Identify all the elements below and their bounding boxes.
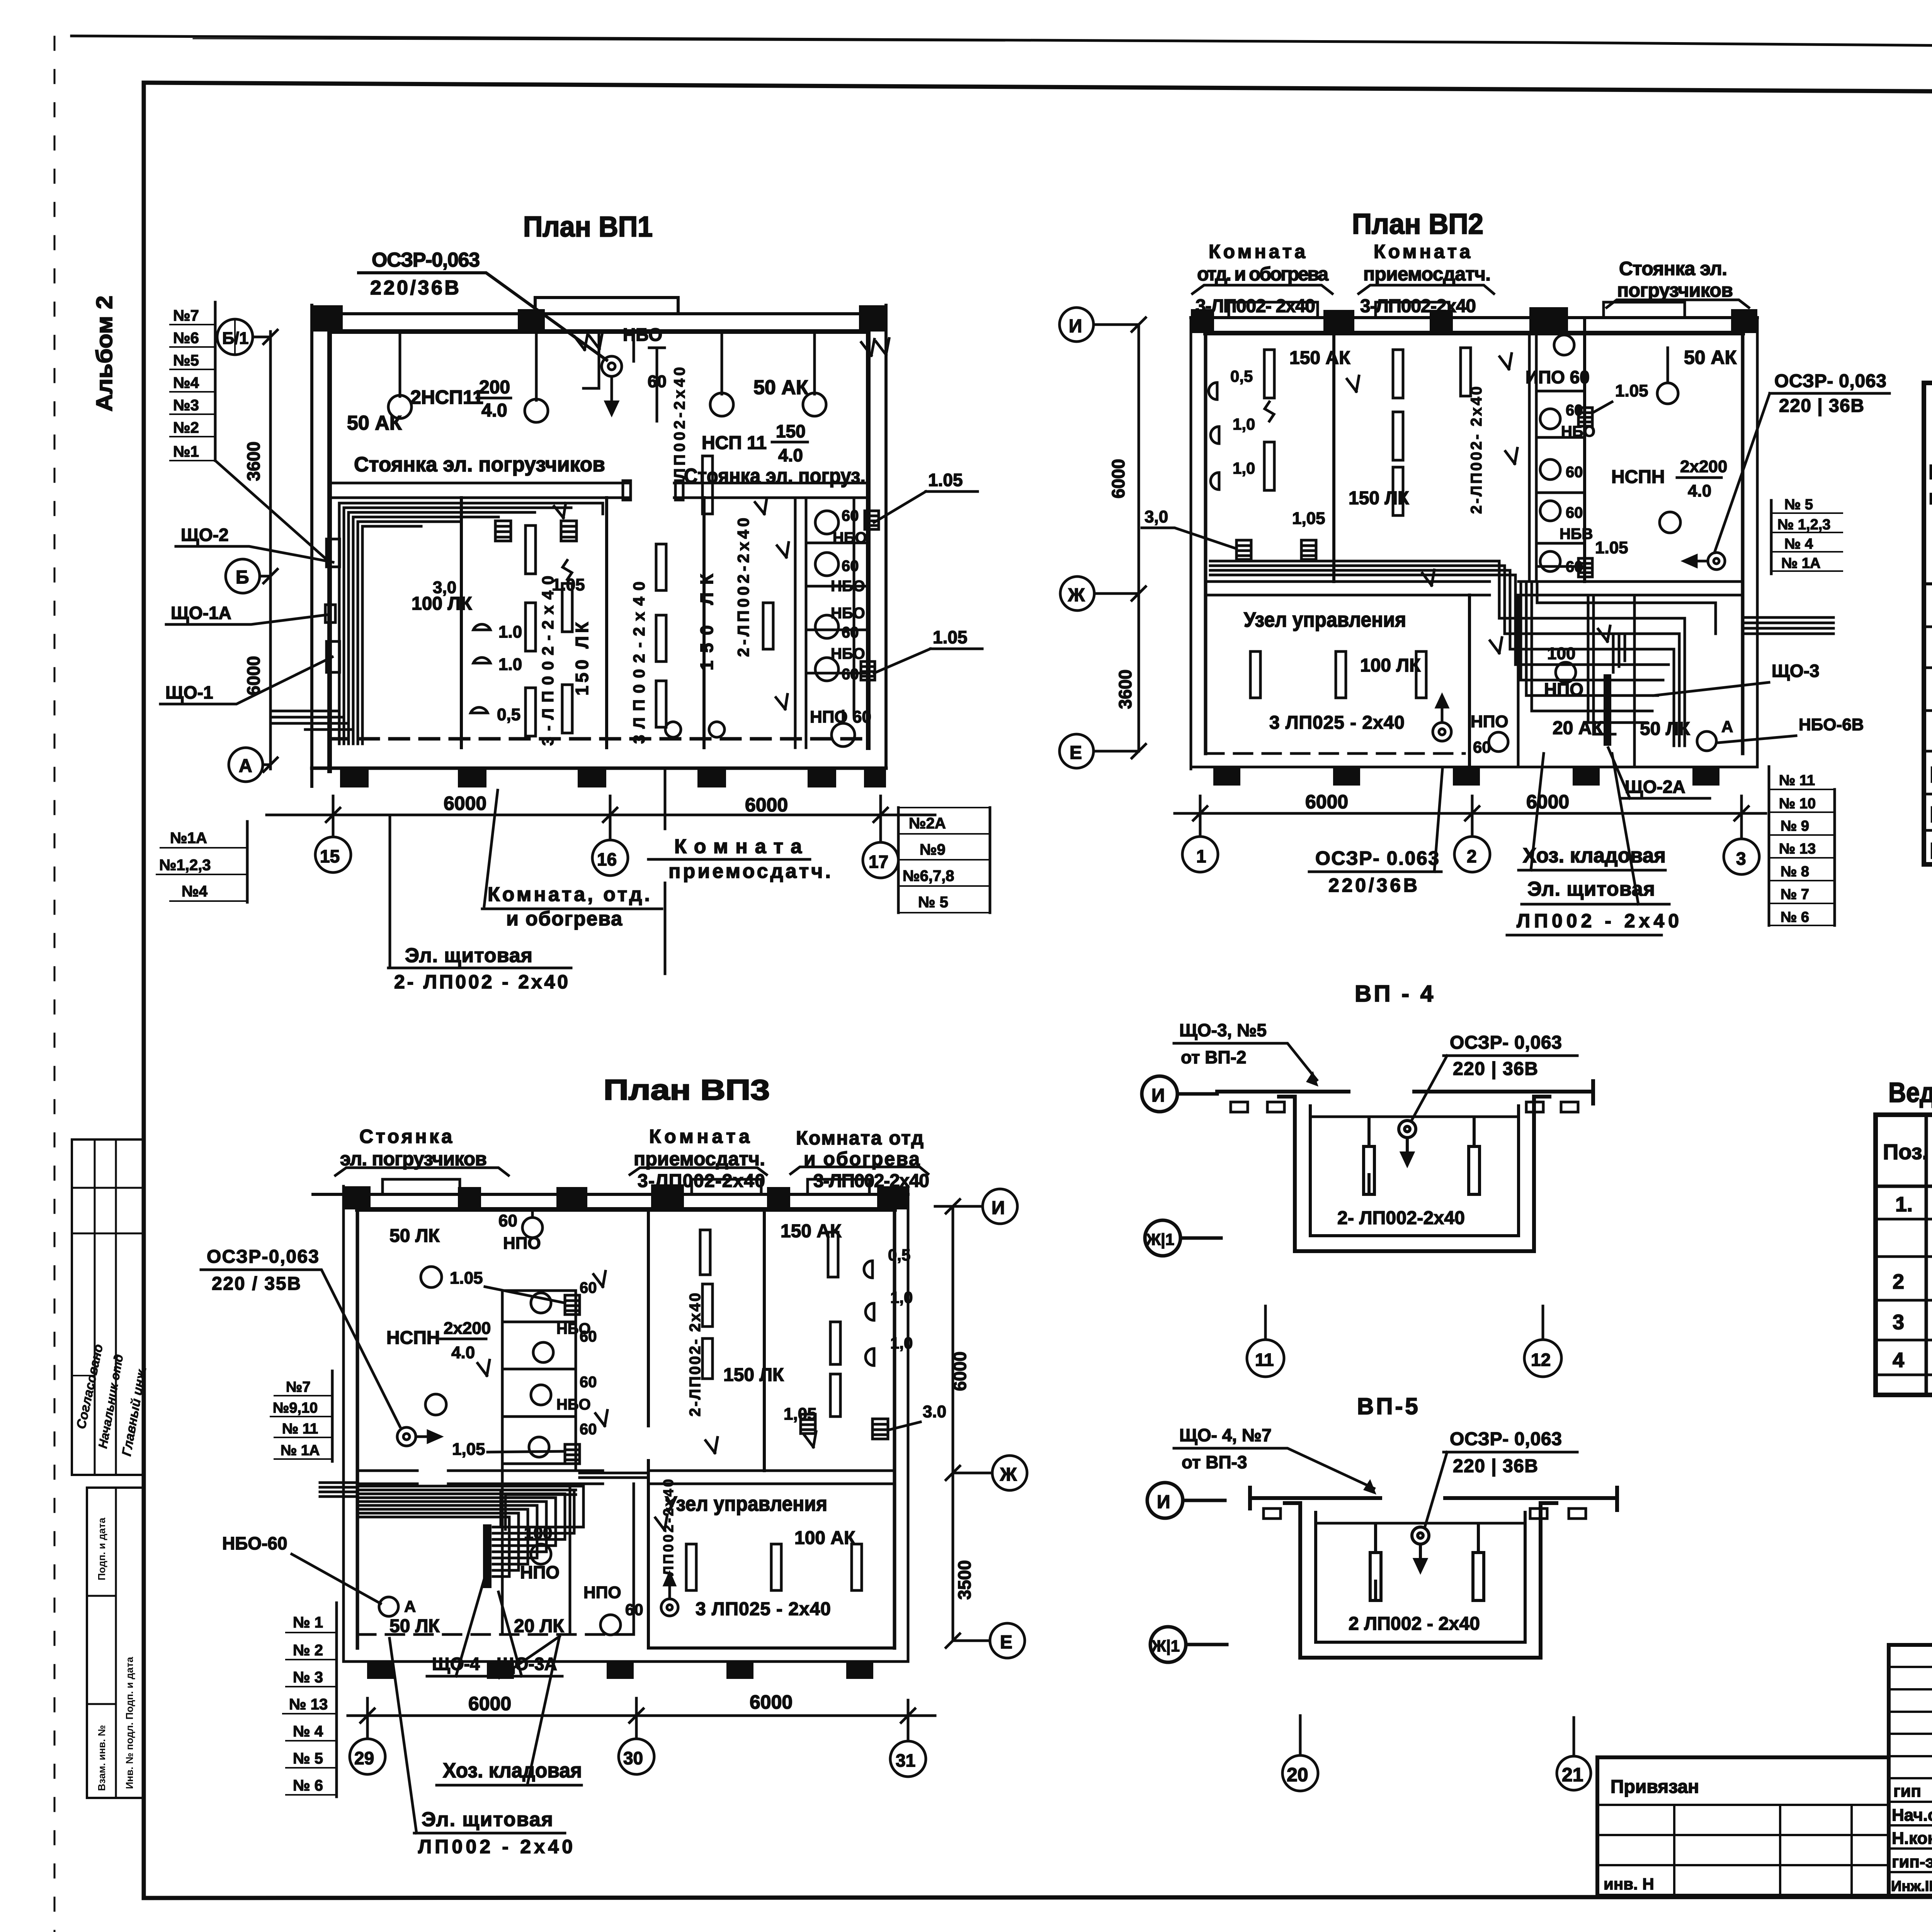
svg-text:№9: №9 [920,841,946,858]
uzel fixtures [1250,651,1426,698]
svg-text:Эл. щитовая: Эл. щитовая [422,1808,553,1831]
svg-text:НСП 11: НСП 11 [702,433,767,453]
svg-text:20: 20 [1287,1764,1308,1786]
vp2 mid wall [1206,582,1743,595]
svg-text:6000: 6000 [950,1352,970,1391]
fixture vp4 a [1364,1117,1374,1194]
svg-text:Инв. № подл. Подп. и дата: Инв. № подл. Подп. и дата [124,1656,135,1789]
svg-text:1.05: 1.05 [933,627,968,647]
svg-text:НПО: НПО [810,707,848,726]
fixture vp5 b [1473,1524,1484,1600]
bubble Zh1 vp4 [1145,1220,1221,1256]
svg-text:ЩО-2: ЩО-2 [181,525,229,545]
wall lamp b [473,658,490,663]
svg-text:1.05: 1.05 [450,1269,483,1287]
leader to transformer [359,273,607,360]
svg-text:1.0: 1.0 [498,622,522,641]
svg-text:4.0: 4.0 [778,445,803,465]
svg-text:ВП-5: ВП-5 [1357,1393,1420,1419]
stall lamp 4 [815,658,838,681]
door cluster wires [583,332,665,421]
bubble Zh1 vp5 [1150,1627,1227,1662]
svg-text:№ 1А: № 1А [281,1442,320,1459]
LEFT-MARGIN [72,296,150,1798]
leader from stack [215,461,328,561]
svg-text:НБО-6В: НБО-6В [1799,715,1864,734]
wall lamp a [473,624,490,630]
vp2 stoyanka wall [1583,318,1586,582]
fixture vp4 b [1469,1117,1480,1194]
svg-text:3600: 3600 [1115,670,1135,709]
svg-text:№ 1: № 1 [293,1614,323,1631]
svg-text:№ 13: № 13 [289,1696,328,1713]
signature grid [1889,1645,1932,1896]
svg-text:ЩО-4: ЩО-4 [432,1654,480,1674]
svg-text:№ 6: № 6 [293,1777,323,1794]
svg-text:3-ЛП002-2х40: 3-ЛП002-2х40 [1360,296,1476,316]
table1 outer border [1924,383,1932,864]
left dim line [269,332,272,769]
svg-text:11: 11 [1255,1350,1274,1370]
vp3 mid wall [357,1471,895,1484]
svg-text:1.0: 1.0 [498,655,522,674]
svg-text:50 АК: 50 АК [753,376,808,399]
svg-text:и обогрева: и обогрева [506,908,622,930]
transformer vp4 [1399,1121,1416,1165]
svg-text:16: 16 [597,849,617,869]
bubble Zh vp3 [953,1456,1027,1490]
svg-text:1,0: 1,0 [1233,415,1255,433]
svg-text:Б/1: Б/1 [222,329,248,348]
svg-text:1,0: 1,0 [890,1334,913,1352]
top band texts [347,325,866,488]
transformer right [1684,553,1725,570]
svg-text:ЛП002-2х40: ЛП002-2х40 [671,367,688,479]
dim ticks bottom [326,808,888,822]
svg-text:Стоянка эл.: Стоянка эл. [1619,258,1727,279]
svg-text:ОСЗР- 0,063: ОСЗР- 0,063 [1774,371,1886,391]
svg-text:Взам. инв. №: Взам. инв. № [96,1725,107,1791]
svg-text:60: 60 [842,624,859,641]
svg-text:150 ЛК: 150 ЛК [723,1365,784,1385]
svg-text:ЩО-2А: ЩО-2А [1625,777,1685,797]
svg-text:220 | 36В: 220 | 36В [1453,1059,1538,1079]
svg-text:Ж: Ж [1068,585,1085,605]
svg-text:ВП - 4: ВП - 4 [1355,981,1435,1007]
svg-text:6000: 6000 [468,1693,511,1714]
bubble B1 [217,319,270,355]
bubble Zh [1060,577,1139,611]
svg-text:№ 4: № 4 [293,1723,323,1740]
top band lamp 1 [388,332,412,418]
svg-text:ЩО-2А: ЩО-2А [1930,802,1932,827]
svg-text:№ 13: № 13 [1779,841,1816,857]
svg-text:№4: №4 [182,883,208,900]
svg-text:6000: 6000 [243,656,264,696]
svg-text:План ВП1: План ВП1 [523,211,653,243]
canopy rects [1229,302,1318,318]
svg-text:И: И [1157,1492,1170,1512]
fraction bars [477,398,808,442]
outer sheet top edge double stroke [193,39,1005,41]
svg-text:Комната: Комната [649,1126,750,1147]
wall lamps right vp3 [864,1261,872,1278]
svg-text:Узел управления: Узел управления [665,1492,827,1515]
fixtures center room [656,544,666,727]
lower stamp box [87,1488,144,1798]
svg-text:А: А [239,756,252,776]
svg-text:Альбом 2: Альбом 2 [92,296,117,412]
PLAN-VP1 [156,211,990,993]
partition 1 [460,498,463,748]
svg-text:3: 3 [1893,1311,1904,1334]
svg-text:3 ЛП025 - 2х40: 3 ЛП025 - 2х40 [1269,713,1405,733]
vp3 right wall [907,1186,910,1662]
svg-text:60: 60 [648,372,667,391]
dim ticks left [264,330,277,772]
svg-text:29: 29 [354,1748,374,1768]
svg-text:60: 60 [580,1374,597,1391]
svg-text:Стоянка эл. погруз.: Стоянка эл. погруз. [684,464,866,488]
svg-text:Подп. и дата: Подп. и дата [96,1517,107,1580]
svg-text:150: 150 [776,421,806,441]
svg-text:№1,2,3: №1,2,3 [159,857,211,874]
vp2 top wall [1191,316,1757,319]
svg-text:2 ЛП002 - 2х40: 2 ЛП002 - 2х40 [1349,1614,1480,1634]
vp3 left wall [342,1186,345,1662]
svg-text:3-ЛП002-2х40: 3-ЛП002-2х40 [813,1171,929,1191]
wall top outer [312,312,886,315]
svg-text:1,05: 1,05 [1292,509,1325,528]
svg-text:0,5: 0,5 [888,1246,910,1264]
panel bar vp3 [483,1524,492,1588]
pit inner vp5 [1316,1512,1525,1642]
right dim vertical vp3 [952,1206,954,1641]
uzel right wall [1468,595,1471,767]
right num stack a [1771,500,1842,574]
svg-text:НПО: НПО [583,1583,621,1602]
outer sheet top edge [71,36,1932,55]
svg-text:А: А [404,1597,416,1616]
switch symbols vp2 [1347,354,1610,653]
svg-text:НБО: НБО [831,578,865,595]
svg-text:щитка: щитка [1929,486,1932,509]
svg-text:И: И [992,1198,1005,1218]
panel SchO-1 [327,641,340,672]
svg-text:№7: №7 [286,1379,311,1395]
bottom partition 3 [1633,595,1636,767]
door porch [535,298,678,314]
pit slab line vp5 [1316,1522,1525,1525]
svg-text:3.0: 3.0 [923,1402,946,1421]
svg-text:15: 15 [320,846,340,866]
right rooms fixtures col1 [700,1230,713,1379]
svg-text:Номер: Номер [1929,461,1932,484]
stoyanka lamps [1657,348,1680,533]
svg-text:Хоз. кладовая: Хоз. кладовая [1523,844,1666,867]
svg-text:4.0: 4.0 [451,1343,475,1362]
svg-text:2х200: 2х200 [444,1319,491,1338]
svg-text:№3: №3 [173,397,199,414]
svg-text:№2А: №2А [909,815,946,832]
svg-text:№ 6: № 6 [1781,909,1809,925]
svg-text:№ 7: № 7 [1781,886,1809,903]
svg-text:НСПН: НСПН [1611,467,1665,487]
svg-text:60: 60 [842,666,859,683]
vp2 right wall [1756,318,1759,767]
svg-text:100: 100 [1547,644,1575,663]
bottom dashed open edge [330,737,868,741]
bubble A [229,748,270,782]
svg-text:3 ЛП025 - 2х40: 3 ЛП025 - 2х40 [696,1599,831,1619]
svg-text:№ 4: № 4 [1784,536,1813,552]
svg-text:150 АК: 150 АК [781,1221,842,1242]
svg-text:Комната, отд.: Комната, отд. [488,883,650,906]
bubble 29 [350,1698,385,1774]
svg-text:№5: №5 [173,352,199,369]
bottom dim vp3 [348,1714,935,1717]
svg-text:Эл. щитовая: Эл. щитовая [405,944,532,967]
svg-text:2-ЛП002- 2х40: 2-ЛП002- 2х40 [1468,386,1485,514]
svg-text:3: 3 [1736,849,1746,869]
svg-text:Ж|1: Ж|1 [1146,1230,1174,1249]
svg-text:6000: 6000 [1526,791,1569,813]
bubble I [1060,308,1139,342]
num stack vp3 b [283,1603,337,1797]
bubble 17 [863,796,898,878]
svg-text:Б: Б [236,567,249,588]
top rooms fixtures r1 [1264,350,1274,490]
svg-text:НБО-60: НБО-60 [222,1533,287,1553]
svg-text:№ 1А: № 1А [1781,555,1821,571]
svg-text:ЛП002 - 2х40: ЛП002 - 2х40 [418,1836,573,1857]
svg-text:приемосдатч.: приемосдатч. [1363,263,1491,285]
wire bundle horizontals [339,503,603,744]
svg-text:НБО: НБО [556,1396,591,1413]
svg-text:№ 8: № 8 [1781,864,1809,880]
ipo lamp [1554,335,1574,355]
svg-text:Узел управления: Узел управления [1244,608,1406,631]
svg-text:60: 60 [580,1421,597,1438]
fixtures r2 [1393,348,1471,515]
lamp bottom right [1697,731,1716,751]
stall lamp 3 [815,615,838,638]
stall yatp 2 [1578,558,1592,577]
stall yatp boxes [861,511,879,680]
svg-text:гип: гип [1893,1782,1921,1801]
privyazan box [1597,1757,1889,1896]
switch symbols vp3 [478,1271,816,1530]
wall lamp c [471,707,488,713]
pit inner vp4 [1310,1106,1519,1236]
svg-text:17: 17 [869,852,888,872]
svg-text:6000: 6000 [444,793,486,814]
uzel transformer [1433,696,1451,741]
svg-text:НБО: НБО [833,529,867,546]
panel schO2A [1604,674,1611,746]
partition 4 [795,498,806,748]
top band lamp 3 [710,332,733,416]
svg-text:50 ЛК: 50 ЛК [389,1226,440,1246]
bubble 21 [1557,1718,1591,1790]
svg-text:60: 60 [580,1328,597,1345]
svg-text:НСПН: НСПН [386,1328,440,1348]
canopy rects vp3 [383,1179,460,1194]
svg-text:50 ЛК: 50 ЛК [389,1616,440,1636]
svg-text:4.0: 4.0 [481,400,507,421]
svg-text:НПО: НПО [503,1234,541,1253]
svg-text:НБВ: НБВ [1560,526,1593,543]
svg-text:ЩО-3: ЩО-3 [1772,661,1820,681]
svg-text:60: 60 [498,1211,517,1230]
VP4-DETAIL [1142,981,1593,1377]
svg-text:100: 100 [524,1524,552,1543]
bubble E [1060,734,1139,768]
svg-text:1.05: 1.05 [1595,538,1628,557]
svg-text:50 ЛК: 50 ЛК [1640,719,1690,739]
svg-text:ОСЗР- 0,063: ОСЗР- 0,063 [1450,1032,1562,1053]
wire tails left [270,711,353,730]
upper stamp box [72,1139,144,1475]
svg-text:0,5: 0,5 [1230,367,1253,385]
svg-text:НБО: НБО [623,325,662,345]
door fixture [702,456,713,514]
svg-text:4: 4 [1893,1349,1904,1372]
svg-text:погрузчиков: погрузчиков [1617,279,1733,301]
vp3 top wall [313,1193,908,1196]
svg-text:ОСЗР-0,063: ОСЗР-0,063 [207,1247,319,1267]
svg-text:Е: Е [1000,1632,1012,1653]
svg-text:И: И [1069,316,1082,337]
bubble 12 [1524,1306,1561,1377]
svg-text:220/36В: 220/36В [370,277,459,299]
svg-text:6000: 6000 [1305,791,1348,813]
stall labels [831,507,867,683]
pit outer vp5 [1285,1503,1556,1658]
svg-text:31: 31 [896,1750,915,1770]
svg-text:2- ЛП002-2х40: 2- ЛП002-2х40 [1337,1208,1465,1228]
svg-text:6000: 6000 [750,1691,793,1713]
center wall vp3 [647,1209,650,1648]
wire bundle vp3 [357,1473,648,1577]
svg-text:4.0: 4.0 [1688,481,1711,500]
svg-text:3600: 3600 [243,442,264,481]
svg-text:инв. Н: инв. Н [1604,1875,1654,1893]
stall lamp 2 [815,553,838,576]
bottom partitions vp3 [570,1484,634,1634]
svg-text:от ВП-3: от ВП-3 [1182,1452,1247,1472]
svg-text:№4: №4 [173,374,199,391]
svg-text:220/36В: 220/36В [1328,874,1417,896]
svg-text:1.: 1. [1895,1193,1913,1216]
bottom piers [340,768,886,787]
svg-text:ЩО-1А: ЩО-1А [1930,762,1932,787]
svg-text:от ВП-2: от ВП-2 [1181,1047,1246,1067]
svg-text:НПО: НПО [520,1562,560,1582]
table2 row lines [1876,1185,1932,1188]
svg-text:НБО: НБО [831,645,865,662]
svg-text:ЩО- 4, №7: ЩО- 4, №7 [1179,1425,1272,1445]
svg-text:20 ЛК: 20 ЛК [514,1616,564,1636]
svg-text:1,05: 1,05 [452,1440,485,1459]
wall left inner [327,332,332,771]
svg-text:2-ЛП002-2х40: 2-ЛП002-2х40 [734,518,752,657]
svg-text:А: А [1721,718,1733,736]
pit slab line [1310,1116,1519,1118]
svg-text:50 АК: 50 АК [1684,347,1737,368]
fixtures col B [562,560,572,733]
vp2 stall shelves [1536,391,1585,566]
transformer osZR vp1 [602,356,622,414]
mid wall [330,483,868,498]
svg-text:Комната: Комната [1374,241,1471,262]
svg-text:60: 60 [842,507,859,524]
wall left outer [310,305,313,786]
vp3 bottom wall [344,1660,908,1663]
top wall piers [312,305,343,332]
svg-text:№6,7,8: №6,7,8 [903,867,954,884]
svg-text:№ 11: № 11 [1779,772,1815,789]
svg-text:2- ЛП002 - 2х40: 2- ЛП002 - 2х40 [394,971,568,993]
stall wall [853,498,855,715]
npo60 lamp [832,711,855,747]
left dim vertical vp2 [1138,325,1140,751]
svg-text:200: 200 [479,377,510,398]
svg-text:1.05: 1.05 [928,470,963,490]
svg-text:20 АК: 20 АК [1553,718,1603,738]
TITLE-BLOCK [1282,1645,1932,1932]
vp2 partition top rooms [1332,333,1335,582]
svg-text:План ВП3: План ВП3 [604,1074,770,1106]
transformer left vp3 [397,1427,440,1446]
svg-text:Поз.: Поз. [1883,1139,1928,1164]
wall right outer [884,305,888,768]
svg-text:3500: 3500 [954,1560,975,1600]
svg-text:Стоянка эл. погрузчиков: Стоянка эл. погрузчиков [354,453,605,476]
right rooms fixtures col2 [828,1232,840,1417]
stall shelves [806,543,868,673]
wire bundle left vp2 [1210,561,1515,575]
svg-text:1,0: 1,0 [890,1288,913,1306]
svg-text:1: 1 [1196,846,1206,866]
svg-text:ЩО-1А: ЩО-1А [171,603,231,623]
bubble 2 [1454,796,1490,872]
stack bottom-left [156,821,247,902]
TABLE-1 [1924,342,1932,864]
svg-text:21: 21 [1562,1764,1583,1786]
bubble B [226,559,270,593]
table1 data row lines [1924,627,1932,830]
svg-text:3,0: 3,0 [433,578,456,597]
bottom dim vp2 [1175,812,1766,815]
bubble 15 [315,796,351,872]
svg-text:100 ЛК: 100 ЛК [1360,655,1421,676]
bubble I vp3 [935,1189,1017,1224]
svg-text:приемосдатч.: приемосдатч. [668,860,831,883]
svg-text:2НСП11: 2НСП11 [410,386,483,408]
bubble 3 [1724,796,1759,874]
partition right rooms [763,1209,766,1471]
svg-text:№6: №6 [173,330,199,347]
fixture right room [763,603,773,649]
bubble 1 [1182,796,1218,872]
svg-text:№ 5: № 5 [293,1750,323,1767]
partition 2 [605,498,608,748]
svg-text:60: 60 [1566,464,1583,481]
stack bottom-right [898,808,990,913]
top band lamp 4 [803,332,826,416]
svg-text:№ 1,2,3: № 1,2,3 [1777,517,1830,533]
